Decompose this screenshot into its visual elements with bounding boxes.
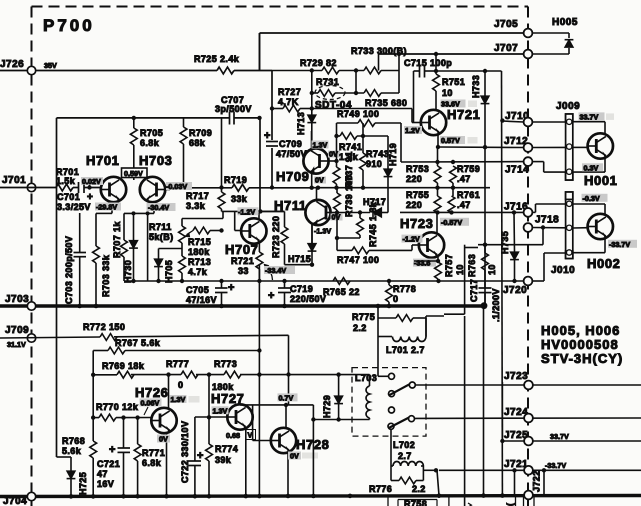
wire H727 base row <box>195 416 228 418</box>
svg-text:0.3V: 0.3V <box>584 163 599 172</box>
svg-text:R721: R721 <box>231 256 254 266</box>
svg-text:0.06V: 0.06V <box>141 398 160 407</box>
resistor R777 <box>181 371 198 378</box>
svg-text:J701: J701 <box>2 175 26 186</box>
resistor R713 <box>181 249 183 257</box>
svg-text:910: 910 <box>366 159 382 169</box>
svg-text:C717: C717 <box>469 279 479 302</box>
relay contact pole1 <box>389 373 395 379</box>
resistor R765 on feedback row <box>333 278 350 285</box>
resistor R723 <box>260 210 284 212</box>
resistor R761 <box>448 196 455 213</box>
border P700 dashed outline <box>32 7 529 506</box>
svg-text:-0.57V: -0.57V <box>441 218 462 227</box>
label -33.4V <box>264 266 295 274</box>
label 0.57V <box>440 136 465 144</box>
svg-text:47/16V: 47/16V <box>186 295 217 305</box>
resistor R715 (wiper to node) <box>193 227 210 234</box>
svg-text:-0.03V: -0.03V <box>166 182 187 191</box>
svg-text:R711: R711 <box>149 222 172 232</box>
svg-text:0: 0 <box>178 380 183 390</box>
wire output node row y=244.7 <box>465 247 478 249</box>
capacitor C721 <box>123 418 125 448</box>
wire R711 top link <box>182 218 223 220</box>
svg-text:180k: 180k <box>188 247 210 257</box>
resistor R755 <box>434 196 441 213</box>
capacitor C722 <box>189 460 202 462</box>
resistor R725 <box>217 67 234 74</box>
svg-text:33.7V: 33.7V <box>580 112 599 121</box>
svg-text:6.8k: 6.8k <box>140 138 160 148</box>
svg-text:-1.2V: -1.2V <box>403 235 420 244</box>
svg-text:J718: J718 <box>535 215 559 226</box>
svg-text:R739 100: R739 100 <box>344 175 354 217</box>
svg-text:J707: J707 <box>494 43 518 54</box>
resistor R701 <box>56 184 73 191</box>
capacitor C715 <box>413 71 415 123</box>
svg-text:4.7K: 4.7K <box>278 97 299 107</box>
svg-text:R705: R705 <box>140 128 163 138</box>
wire relay common down to L702 <box>390 429 392 466</box>
svg-text:R765 22: R765 22 <box>323 287 360 297</box>
svg-text:R725 2.4k: R725 2.4k <box>194 54 240 64</box>
node dot R727 tap <box>270 106 274 110</box>
svg-text:L703: L703 <box>355 373 377 383</box>
svg-text:3.3/25V: 3.3/25V <box>57 202 91 212</box>
label 0V / -1.3V H711 <box>331 214 343 221</box>
capacitor C705 <box>221 281 223 288</box>
wire bias ladder bottom row <box>312 92 318 94</box>
wire main line mid section <box>312 187 490 189</box>
svg-text:C722 330/10V: C722 330/10V <box>180 421 190 483</box>
svg-text:H715: H715 <box>288 254 311 264</box>
resistor R729 <box>322 67 339 74</box>
resistor R773 <box>224 371 241 378</box>
svg-text:39k: 39k <box>215 455 232 465</box>
svg-text:-0.3V: -0.3V <box>583 194 600 203</box>
wire emitter line to J712 <box>436 145 440 149</box>
svg-text:5.6k: 5.6k <box>62 446 82 456</box>
wire output to L701 right node <box>426 315 444 317</box>
diode H715 <box>311 225 313 243</box>
resistor R775 / inductor L701 parallel <box>377 306 379 318</box>
svg-text:0V: 0V <box>159 435 168 444</box>
resistor R717 hanging from main line <box>219 185 223 189</box>
diode H729 <box>313 419 369 421</box>
svg-text:-33.7V: -33.7V <box>545 461 566 470</box>
svg-text:J723: J723 <box>504 371 528 382</box>
wire H703 emitter jog <box>124 212 154 214</box>
wire H707 base drop <box>234 211 236 230</box>
resistor R727 <box>272 108 283 110</box>
svg-text:220/50V: 220/50V <box>290 294 326 304</box>
svg-text:47/50V: 47/50V <box>276 149 307 159</box>
svg-text:0V: 0V <box>315 176 324 185</box>
svg-text:R759: R759 <box>457 164 480 174</box>
svg-text:+: + <box>264 130 270 142</box>
diode H733 <box>484 71 486 96</box>
label 0.59V <box>122 168 148 178</box>
resistor R776 <box>390 466 392 481</box>
potentiometer R711 <box>181 219 183 227</box>
svg-text:10: 10 <box>442 88 453 98</box>
svg-text:0.02V: 0.02V <box>82 177 101 186</box>
wire 0.7V row <box>240 404 313 406</box>
svg-text:-29.8V: -29.8V <box>96 203 117 212</box>
svg-text:R767 5.6k: R767 5.6k <box>115 338 161 348</box>
relay coil L703 <box>369 375 371 386</box>
svg-text:1.3V: 1.3V <box>171 395 186 404</box>
diode H717 <box>373 208 382 217</box>
resistor R751 <box>435 54 437 74</box>
label 33.6V <box>441 100 466 108</box>
svg-text:-1.2V: -1.2V <box>238 207 255 216</box>
wire 35V rail J726 to C709 corner <box>0 70 217 72</box>
svg-text:R731: R731 <box>316 77 339 87</box>
transistor H002 <box>573 203 605 205</box>
svg-text:.1/200V: .1/200V <box>491 288 501 322</box>
svg-text:2.2: 2.2 <box>412 484 426 494</box>
label 1.2V <box>404 126 422 134</box>
svg-text:H713: H713 <box>296 112 306 135</box>
svg-text:H002: H002 <box>587 256 620 271</box>
svg-text:0.57V: 0.57V <box>441 136 460 145</box>
svg-text:R776: R776 <box>369 484 392 494</box>
wire L702 node to J721 line <box>423 469 436 471</box>
resistor R759 <box>450 166 457 183</box>
svg-text:3.3k: 3.3k <box>186 201 206 211</box>
svg-text:R713: R713 <box>188 257 211 267</box>
capacitor C701 <box>78 182 80 193</box>
svg-text:35V: 35V <box>44 61 57 70</box>
svg-text:R745 1.8k: R745 1.8k <box>368 201 378 247</box>
svg-text:R768: R768 <box>62 436 85 446</box>
label 0.3V <box>582 163 603 171</box>
resistor R778 <box>386 285 393 302</box>
svg-text:0: 0 <box>393 294 398 304</box>
wire bias ladder top row <box>272 70 322 72</box>
svg-text:R707 1k: R707 1k <box>112 221 122 258</box>
svg-text:H723: H723 <box>400 216 433 231</box>
svg-text:R743: R743 <box>366 149 389 159</box>
svg-text:H005, H006: H005, H006 <box>541 323 620 338</box>
resistor R731 in dashed ellipse <box>318 90 335 97</box>
svg-text:-33.6: -33.6 <box>414 259 430 268</box>
svg-text:STV-3H(CY): STV-3H(CY) <box>541 351 623 366</box>
wire -33.4 rail <box>285 264 313 266</box>
svg-text:R715: R715 <box>188 237 211 247</box>
inductor L701 <box>378 336 392 338</box>
svg-text:HV0000508: HV0000508 <box>541 337 619 352</box>
node line R711/H705 <box>159 248 183 250</box>
svg-text:H701: H701 <box>86 153 119 168</box>
resistor R749 <box>337 122 359 124</box>
svg-text:R727: R727 <box>278 87 301 97</box>
svg-text:R749 100: R749 100 <box>337 109 379 119</box>
svg-text:C701: C701 <box>57 192 80 202</box>
svg-text:+: + <box>197 450 203 462</box>
diode H705 <box>158 249 160 260</box>
resistor R763 <box>483 243 487 247</box>
svg-text:H721: H721 <box>447 107 480 122</box>
resistor R709 <box>183 118 185 127</box>
wire vertical to J705 line <box>259 33 261 71</box>
resistor R747 <box>337 249 352 251</box>
svg-text:J703: J703 <box>5 294 29 305</box>
wire H707 base node line <box>222 210 285 212</box>
wire feedback row y=281 <box>124 280 524 282</box>
label -33.7V <box>608 240 637 248</box>
capacitor C719 <box>284 281 286 288</box>
svg-text:R763: R763 <box>467 254 477 277</box>
svg-text:H733: H733 <box>471 75 481 98</box>
label 0V H728 <box>288 452 301 460</box>
svg-text:R717: R717 <box>186 191 209 201</box>
wire to H723 base <box>411 245 413 250</box>
wire left bias vertical x=93 <box>92 351 94 442</box>
svg-text:-30.4V: -30.4V <box>148 203 169 212</box>
resistor R735 <box>364 90 381 97</box>
bus bottom rail J704 thick <box>0 496 641 497</box>
wire H701 emitter jog <box>96 212 112 214</box>
diode H719 <box>387 136 389 169</box>
resistor R745 <box>359 213 361 219</box>
resistor R737 <box>336 123 338 167</box>
label -1.2V <box>238 207 259 215</box>
label -0.3V <box>582 194 608 202</box>
svg-text:H735: H735 <box>500 231 510 254</box>
svg-text:0V: 0V <box>290 452 299 461</box>
svg-text:J705: J705 <box>494 19 518 30</box>
svg-text:J726: J726 <box>0 59 24 70</box>
svg-text:H709: H709 <box>276 169 309 184</box>
svg-text:33: 33 <box>238 266 249 276</box>
bus speaker line J703 thick <box>0 304 484 307</box>
resistor R719 on main line <box>196 187 232 189</box>
svg-text:C705: C705 <box>186 285 209 295</box>
resistor R757 <box>435 262 442 279</box>
resistor R770 <box>93 417 99 419</box>
resistor R743 <box>362 123 364 153</box>
label 0.7V <box>278 393 298 401</box>
svg-text:R755: R755 <box>406 190 429 200</box>
label -1.2V H723 <box>402 235 423 243</box>
wire -0.57 row y=212.4 <box>400 211 524 213</box>
svg-text:H729: H729 <box>322 395 332 418</box>
svg-text:-1.3V: -1.3V <box>314 227 331 236</box>
svg-text:2.2: 2.2 <box>353 323 367 333</box>
svg-text:0.68: 0.68 <box>226 431 240 440</box>
svg-text:33.6V: 33.6V <box>441 100 460 109</box>
svg-text:L702: L702 <box>393 440 415 450</box>
box feedback rail top edge <box>57 117 230 119</box>
svg-text:R769 18k: R769 18k <box>102 361 145 371</box>
wire x=514.5 drop <box>514 470 516 495</box>
svg-text:R735 680: R735 680 <box>365 98 407 108</box>
svg-text:J709: J709 <box>5 325 29 336</box>
resistor R767 <box>93 350 108 352</box>
svg-text:J720: J720 <box>503 285 527 296</box>
svg-text:R778: R778 <box>393 284 416 294</box>
svg-text:C703 200p/50V: C703 200p/50V <box>64 236 74 304</box>
svg-text:H005: H005 <box>552 17 578 28</box>
svg-text:47: 47 <box>97 469 108 479</box>
wire C709 drop <box>271 71 273 141</box>
label 1.3V H727 <box>212 406 229 414</box>
wire bias vertical <box>311 71 313 116</box>
resistor R707 <box>121 240 128 257</box>
resistor R739 <box>336 188 338 193</box>
svg-text:H711: H711 <box>274 198 307 213</box>
svg-text:R703 33k: R703 33k <box>101 254 111 297</box>
svg-text:R777: R777 <box>166 359 189 369</box>
svg-text:R709: R709 <box>189 128 212 138</box>
resistor R703 <box>93 246 100 263</box>
wire driver output line y=162 <box>401 161 524 163</box>
label 0.06V 1.3V H726 <box>140 398 162 406</box>
svg-text:10: 10 <box>487 264 497 275</box>
svg-text:.47: .47 <box>457 174 471 184</box>
svg-text:0.7V: 0.7V <box>279 393 294 402</box>
label -29.8V <box>95 203 121 211</box>
capacitor C717 <box>479 287 492 289</box>
svg-text:R729 82: R729 82 <box>300 58 337 68</box>
svg-text:R753: R753 <box>406 164 429 174</box>
svg-text:68k: 68k <box>189 138 206 148</box>
resistor R771 <box>137 418 139 444</box>
wire H703 base to main line right <box>170 187 196 189</box>
svg-text:R723 220: R723 220 <box>271 216 281 258</box>
svg-text:.47: .47 <box>457 200 471 210</box>
relay L703 dashed box <box>352 368 426 437</box>
svg-text:J010: J010 <box>551 265 575 276</box>
svg-text:1.8k: 1.8k <box>339 152 359 162</box>
svg-text:1.3V: 1.3V <box>213 406 228 415</box>
svg-text:6.8k: 6.8k <box>142 458 162 468</box>
wire main vertical from J705 line down to base node <box>259 33 261 71</box>
diode H735 <box>513 212 516 252</box>
svg-text:R741: R741 <box>339 142 362 152</box>
label 0.02V <box>81 177 103 185</box>
wire H723 collector node <box>436 259 440 263</box>
transistor H001 <box>573 121 605 123</box>
label -0.03V <box>166 182 192 190</box>
svg-text:J704: J704 <box>3 496 27 506</box>
label -30.4V <box>147 203 176 211</box>
capacitor C703 <box>79 213 81 253</box>
capacitor C707 <box>229 112 231 125</box>
resistor R721 <box>256 252 263 269</box>
svg-text:R773: R773 <box>214 359 237 369</box>
svg-text:16V: 16V <box>97 479 114 489</box>
wire row y=374.5 <box>93 374 117 376</box>
svg-text:C715 100p: C715 100p <box>404 58 452 68</box>
wire +33.7 rail vertical <box>501 71 504 496</box>
resistor R769 <box>117 371 134 378</box>
svg-text:L701 2.7: L701 2.7 <box>386 345 425 355</box>
svg-text:10: 10 <box>455 264 465 275</box>
resistor R753 <box>437 147 439 166</box>
resistor R772 <box>100 334 117 341</box>
wire H727 base feed x=209 <box>208 375 210 418</box>
svg-text:R757: R757 <box>444 254 454 277</box>
svg-text:R751: R751 <box>442 77 465 87</box>
svg-text:31.1V: 31.1V <box>7 340 26 349</box>
svg-text:220: 220 <box>406 200 422 210</box>
svg-text:C719: C719 <box>290 284 313 294</box>
svg-text:P700: P700 <box>43 16 95 35</box>
svg-text:J722: J722 <box>532 470 542 492</box>
wire main input line J701 to H701 base <box>0 187 56 189</box>
svg-text:33k: 33k <box>231 194 248 204</box>
svg-text:H719: H719 <box>388 143 398 166</box>
label -33.6 <box>413 259 436 267</box>
diode H713 <box>307 115 316 123</box>
svg-text:R774: R774 <box>215 444 238 454</box>
wire J707 line <box>379 53 525 55</box>
svg-text:1.5k: 1.5k <box>56 176 76 186</box>
svg-text:+: + <box>228 282 234 294</box>
svg-text:R770 12k: R770 12k <box>96 402 139 412</box>
svg-text:220: 220 <box>406 174 422 184</box>
svg-text:H001: H001 <box>584 173 617 188</box>
svg-text:(: ( <box>505 503 515 506</box>
svg-text:-33.4V: -33.4V <box>265 266 286 275</box>
diode H730 <box>129 241 138 249</box>
svg-text:H705: H705 <box>164 260 174 283</box>
svg-text:1.2V: 1.2V <box>405 126 420 135</box>
resistor R768 <box>90 441 97 458</box>
svg-text:-33.7V: -33.7V <box>609 240 630 249</box>
label 1.3V / 0V H709 <box>312 141 329 149</box>
wire SDT line to H721 base <box>312 108 412 110</box>
svg-text:+: + <box>268 290 274 302</box>
svg-text:33.7V: 33.7V <box>550 432 569 441</box>
wire H711 base row <box>337 212 370 214</box>
wire J709 rail <box>0 337 100 338</box>
svg-text:H730: H730 <box>123 260 133 283</box>
label 33.7V <box>579 112 605 120</box>
resistor R741 <box>337 135 341 137</box>
svg-text:1.3V: 1.3V <box>313 141 328 150</box>
label -0.57V <box>440 218 469 226</box>
svg-text:R775: R775 <box>352 312 375 322</box>
svg-text:4.7k: 4.7k <box>188 267 208 277</box>
svg-text:+: + <box>109 444 115 456</box>
resistor R733 <box>364 67 381 74</box>
relay contact pole2 <box>389 407 395 413</box>
svg-text:C709: C709 <box>279 139 302 149</box>
svg-text:2.7: 2.7 <box>398 451 412 461</box>
svg-text:H725: H725 <box>78 472 88 495</box>
diode H725 zener <box>57 456 72 458</box>
svg-text:0.59V: 0.59V <box>124 169 143 178</box>
svg-text:R719: R719 <box>224 175 247 185</box>
wire x=259.4 long vertical <box>258 264 260 496</box>
wire drop to relay feed <box>288 335 290 405</box>
svg-text:V: V <box>248 431 253 440</box>
svg-text:R771: R771 <box>142 448 165 458</box>
svg-text:R747 100: R747 100 <box>337 255 379 265</box>
svg-text:R761: R761 <box>457 190 480 200</box>
svg-text:H703: H703 <box>139 153 172 168</box>
svg-text:3p/500V: 3p/500V <box>215 104 252 114</box>
svg-text:C721: C721 <box>97 459 120 469</box>
resistor R774 <box>208 417 210 444</box>
svg-text:J009: J009 <box>556 101 580 112</box>
svg-text:5k(B): 5k(B) <box>149 232 174 242</box>
resistor R705 <box>133 118 135 128</box>
